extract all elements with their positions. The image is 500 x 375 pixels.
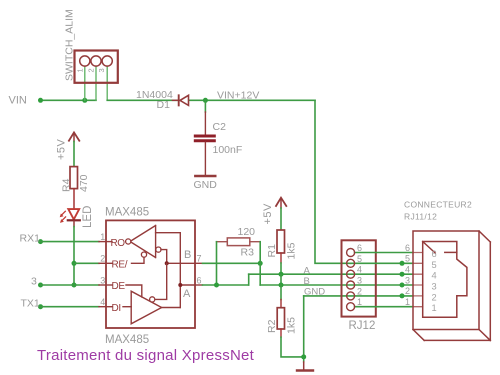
- svg-text:R4: R4: [61, 178, 73, 192]
- svg-text:LED: LED: [82, 206, 94, 228]
- diode D1 wire out: [189, 99, 315, 101]
- RJ12 circle 6: [347, 249, 355, 257]
- svg-text:6: 6: [432, 249, 437, 259]
- svg-text:2: 2: [432, 292, 437, 302]
- wire GND down to ground: [303, 296, 305, 362]
- junction B node: [258, 261, 263, 266]
- wire receiver B to node: [161, 250, 167, 264]
- pin 4 stub: [99, 306, 112, 308]
- RJ12 circle 2: [347, 292, 355, 300]
- node VIN dot: [38, 98, 43, 103]
- wire VIN horizontal: [41, 99, 97, 101]
- wire LED to RE//DE: [73, 227, 75, 285]
- svg-text:B: B: [304, 276, 310, 287]
- connector2 3D right edge: [489, 242, 491, 340]
- connector2 pin6 mark: [445, 251, 457, 253]
- svg-text:D1: D1: [157, 99, 171, 111]
- wire TX1 to pin4: [41, 306, 100, 308]
- connector2 pin stubs: [413, 253, 423, 307]
- svg-text:2: 2: [357, 286, 362, 296]
- svg-text:3: 3: [31, 276, 37, 288]
- wire DI to driver: [123, 306, 131, 308]
- wire R3 right to B node: [259, 242, 261, 264]
- svg-text:CONNECTEUR2: CONNECTEUR2: [404, 200, 472, 210]
- RJ12 circle 1: [347, 303, 355, 311]
- svg-text:1: 1: [357, 297, 362, 307]
- connector2 3D bottom-right diagonal: [479, 330, 490, 341]
- svg-text:SWITCH_ALIM: SWITCH_ALIM: [64, 9, 76, 81]
- junction R3/A: [214, 283, 219, 288]
- connector2 3D bottom-left diagonal: [413, 330, 424, 341]
- pin 6 stub: [195, 284, 203, 286]
- wire RJ12 row5 out: [351, 262, 413, 264]
- junction ground: [301, 354, 306, 359]
- svg-text:MAX485: MAX485: [105, 334, 149, 346]
- wire A line to RJ12: [249, 273, 413, 275]
- connector SWITCH_ALIM pin circle 2: [91, 56, 101, 66]
- wire driver output to net A: [162, 307, 181, 309]
- svg-text:1: 1: [405, 297, 410, 307]
- capacitor C2 plate top: [195, 135, 214, 138]
- receiver triangle inside U1: [130, 226, 156, 258]
- junction LED/DE: [72, 283, 77, 288]
- svg-text:Traitement du signal XpressNet: Traitement du signal XpressNet: [37, 347, 255, 364]
- resistor R3 left lead: [217, 241, 228, 243]
- receiver enable bubble: [141, 252, 146, 257]
- svg-text:C2: C2: [213, 121, 227, 133]
- wire +5V to R4: [73, 142, 75, 167]
- svg-text:B: B: [184, 249, 191, 261]
- wire net3 to pin3: [41, 284, 100, 286]
- resistor R3 body: [227, 238, 250, 246]
- junction VIN/pin1: [82, 98, 87, 103]
- connector2 3D top-right diagonal: [479, 231, 490, 242]
- receiver input B bubble: [156, 247, 161, 252]
- wire receiver input A: [156, 233, 181, 285]
- svg-text:RE/: RE/: [112, 260, 128, 271]
- svg-text:6: 6: [357, 243, 362, 253]
- wire B jog down: [259, 263, 261, 285]
- connector SWITCH_ALIM box: [75, 51, 118, 83]
- pin 3 stub: [99, 284, 112, 286]
- svg-text:RJ12: RJ12: [349, 320, 376, 332]
- diode D1 triangle: [180, 95, 189, 105]
- ground symbol bottom: [297, 369, 313, 371]
- resistor R2 lead top: [280, 300, 282, 308]
- wire switch pin1: [84, 66, 86, 100]
- driver inverted output bubble: [150, 297, 155, 302]
- connector2 corner diagonal: [423, 242, 436, 254]
- svg-text:5: 5: [405, 254, 410, 264]
- junction internal B: [165, 261, 169, 265]
- connector2 jack opening: [423, 242, 467, 318]
- svg-text:2: 2: [87, 68, 96, 72]
- connector SWITCH_ALIM pin circle 1: [80, 56, 90, 66]
- svg-text:5: 5: [357, 254, 362, 264]
- svg-text:RO: RO: [111, 238, 126, 249]
- wire +12V rail to RJ12 pin5: [315, 100, 351, 263]
- svg-text:RJ11/12: RJ11/12: [404, 212, 437, 222]
- power +5V stem left: [73, 133, 75, 142]
- junction row4: [400, 272, 405, 277]
- resistor R1 body: [277, 230, 285, 253]
- wire C2 top: [204, 100, 206, 112]
- junction R2/B: [279, 283, 284, 288]
- receiver output bubble: [126, 239, 131, 244]
- svg-text:4: 4: [100, 297, 105, 307]
- ground symbol under C2: [195, 175, 215, 177]
- junction R1/A: [279, 272, 284, 277]
- svg-text:1: 1: [76, 68, 85, 72]
- svg-text:R2: R2: [266, 319, 278, 333]
- resistor R2 body: [277, 308, 284, 329]
- RJ12 circle 4: [347, 270, 355, 278]
- connector2 outer front face: [413, 231, 479, 330]
- node net 3: [38, 283, 43, 288]
- svg-text:100nF: 100nF: [213, 144, 243, 156]
- svg-text:GND: GND: [194, 179, 218, 191]
- ground lead bottom: [303, 362, 305, 370]
- net B internal line: [167, 262, 195, 264]
- capacitor C2 lead top: [204, 112, 206, 134]
- svg-text:120: 120: [238, 226, 256, 238]
- svg-text:4: 4: [357, 265, 362, 275]
- svg-text:3: 3: [100, 275, 105, 285]
- resistor R2 lead bottom: [280, 329, 282, 337]
- svg-text:DI: DI: [112, 303, 121, 314]
- LED D triangle: [68, 209, 79, 219]
- wire R2 to ground junction: [281, 337, 304, 357]
- pin 7 stub: [195, 262, 203, 264]
- power +5V arrow left: [69, 132, 79, 140]
- op-amp U1 MAX485 box: [106, 220, 195, 328]
- svg-text:1: 1: [432, 303, 437, 313]
- svg-text:R3: R3: [241, 247, 255, 259]
- connector RJ12 box: [342, 240, 376, 316]
- RJ12 circle 5: [347, 259, 355, 267]
- junction LED/RE: [72, 261, 77, 266]
- svg-text:2: 2: [100, 254, 105, 264]
- pin 1 stub: [99, 241, 112, 243]
- wire DE to driver: [126, 285, 142, 297]
- RJ12 wire row6: [355, 252, 413, 254]
- wire switch pin2: [95, 66, 97, 100]
- LED cathode lead: [73, 221, 75, 227]
- wire B to R2: [280, 285, 282, 300]
- wire pin7 to B node: [203, 262, 261, 264]
- svg-text:DE: DE: [112, 281, 126, 292]
- svg-text:1k5: 1k5: [286, 242, 298, 259]
- diode D1 cathode bar: [178, 95, 180, 105]
- power +5V stem right: [280, 198, 282, 208]
- LED arrow 2: [62, 217, 65, 220]
- wire RX1 to pin1: [41, 241, 100, 243]
- node TX1: [38, 304, 43, 309]
- svg-text:1k5: 1k5: [286, 317, 298, 334]
- svg-text:3: 3: [357, 276, 362, 286]
- resistor R3 right lead: [250, 241, 260, 243]
- wire A jog up: [248, 274, 250, 285]
- resistor R1 lead bottom: [280, 253, 282, 263]
- wire B line to RJ12: [260, 284, 413, 286]
- LED cathode bar: [68, 219, 80, 221]
- junction row2: [400, 293, 405, 298]
- pin 2 stub: [99, 262, 112, 264]
- svg-text:VIN+12V: VIN+12V: [217, 90, 259, 102]
- junction diode/C2: [203, 98, 208, 103]
- capacitor C2 plate bottom: [195, 139, 214, 142]
- wire +5V to R1: [280, 208, 282, 230]
- power +5V arrow right: [276, 198, 286, 206]
- svg-text:6: 6: [405, 243, 410, 253]
- wire GND line to RJ12: [304, 295, 413, 297]
- connector2 3D bottom edge: [424, 339, 490, 341]
- driver triangle inside U1: [131, 291, 161, 324]
- wire switch pin3 to diode: [106, 66, 108, 100]
- node RX1: [38, 239, 43, 244]
- connector SWITCH_ALIM pin circle 3: [102, 56, 112, 66]
- resistor R4 lead bottom: [73, 189, 75, 208]
- net A internal line: [180, 284, 195, 286]
- svg-text:R1: R1: [266, 244, 278, 258]
- svg-text:3: 3: [97, 68, 106, 72]
- resistor R4 body: [70, 167, 78, 189]
- wire R3 left to A: [216, 242, 218, 285]
- svg-text:4: 4: [405, 265, 410, 275]
- wire A to B vertical: [280, 274, 282, 285]
- svg-text:5: 5: [432, 260, 437, 270]
- junction row3: [400, 283, 405, 288]
- svg-text:A: A: [304, 265, 311, 276]
- svg-text:MAX485: MAX485: [105, 207, 149, 219]
- svg-text:470: 470: [78, 174, 90, 192]
- svg-text:+5V: +5V: [262, 203, 274, 225]
- diode D1 lead stub: [173, 99, 178, 101]
- svg-text:RX1: RX1: [20, 233, 41, 245]
- svg-text:+5V: +5V: [56, 138, 68, 160]
- wire pin6 to jog: [203, 284, 249, 286]
- wire RE row: [74, 262, 99, 264]
- svg-text:1: 1: [100, 232, 105, 242]
- svg-text:4: 4: [432, 271, 437, 281]
- junction row5: [400, 261, 405, 266]
- wire internal B down to driver bubble: [155, 263, 167, 299]
- svg-text:6: 6: [197, 275, 202, 285]
- svg-text:7: 7: [197, 254, 202, 264]
- svg-text:TX1: TX1: [21, 298, 40, 310]
- RJ12 wire row1: [355, 306, 413, 308]
- svg-text:VIN: VIN: [9, 95, 27, 107]
- wire RE/ to enable bubble: [132, 257, 145, 263]
- svg-text:3: 3: [405, 275, 410, 285]
- svg-text:3: 3: [432, 282, 437, 292]
- junction internal A: [178, 283, 182, 287]
- wire R1 to A: [280, 263, 282, 274]
- RJ12 circle 3: [347, 281, 355, 289]
- svg-text:2: 2: [405, 286, 410, 296]
- svg-text:A: A: [183, 288, 191, 300]
- capacitor C2 lead bottom: [204, 142, 206, 175]
- LED arrow 1: [62, 211, 65, 214]
